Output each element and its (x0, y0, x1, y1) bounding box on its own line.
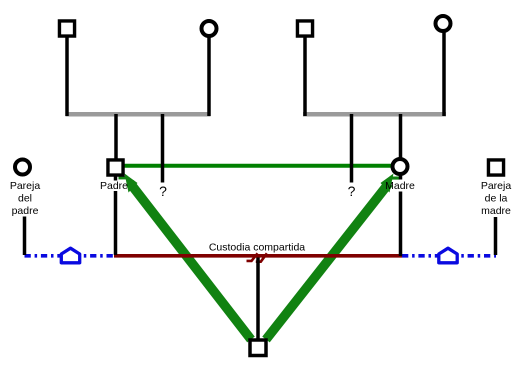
custody line (maroon) (114, 254, 402, 258)
house symbol left (cohabitation) (61, 248, 79, 263)
grandmother 1 (circle) (202, 21, 217, 36)
svg-text:de la: de la (485, 193, 508, 205)
house symbol right (cohabitation) (439, 248, 457, 263)
svg-text:Madre: Madre (385, 180, 415, 192)
child (square) (250, 340, 266, 356)
svg-text:madre: madre (481, 205, 511, 217)
family bar right (grandparents of Madre) (303, 112, 446, 117)
green arrowhead at Madre (381, 174, 394, 193)
svg-text:Pareja: Pareja (481, 180, 512, 192)
wire: bar to unknown sibling right (350, 114, 354, 183)
svg-text:Custodia compartida: Custodia compartida (209, 242, 305, 254)
wire: Pareja de la madre down to blue line (494, 217, 498, 255)
blue cohabitation dash-dot line right (402, 254, 496, 258)
green couple line Padre-Madre (124, 164, 392, 168)
grandmother 2 (circle) (436, 16, 451, 31)
custody mark 1 (247, 253, 258, 261)
grandfather 1 (square) (59, 21, 74, 36)
wire: Pareja del padre down to blue line (23, 217, 27, 256)
svg-text:?: ? (159, 183, 167, 199)
wire: Madre down to custody line (399, 192, 403, 257)
green arrowhead at Padre (125, 174, 138, 193)
green arrow barb under Madre (392, 177, 400, 180)
wire: bar to unknown sibling left (161, 114, 165, 183)
green arrow barb under Padre (119, 176, 127, 179)
custody mark 2 (256, 253, 267, 261)
Padre (square) (108, 160, 123, 175)
family bar left (grandparents of Padre) (66, 112, 211, 117)
svg-text:Padre: Padre (100, 180, 128, 192)
svg-text:padre: padre (12, 205, 39, 217)
wire: grandmother2 to bar (442, 32, 446, 116)
svg-text:Pareja: Pareja (10, 180, 41, 192)
green relation diagonal Madre-child (266, 183, 389, 340)
svg-text:?: ? (348, 183, 356, 199)
wire: grandfather1 to bar (65, 37, 69, 116)
green relation diagonal Padre-child (130, 183, 251, 340)
wire: custody line down to child (256, 258, 260, 340)
wire: Padre square stub (114, 176, 118, 181)
grandfather 2 (square) (297, 21, 312, 36)
svg-text:del: del (18, 193, 32, 205)
blue cohabitation dash-dot line left (25, 254, 115, 258)
Madre (circle) (393, 159, 408, 174)
wire: Madre circle stub (399, 175, 403, 180)
wire: bar to Madre (399, 114, 403, 158)
wire: Padre down to custody line (114, 191, 118, 255)
Pareja del padre (circle) (15, 160, 30, 175)
Pareja de la madre (square) (488, 160, 503, 175)
wire: grandfather2 to bar (303, 37, 307, 116)
wire: bar to Padre (114, 114, 118, 159)
wire: grandmother1 to bar (207, 37, 211, 116)
